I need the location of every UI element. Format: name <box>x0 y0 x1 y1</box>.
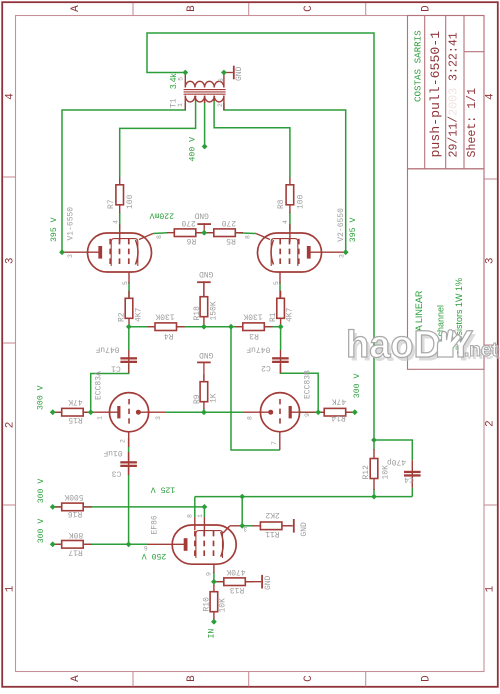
transformer T1 secondary winding <box>185 96 224 111</box>
svg-text:4: 4 <box>485 93 497 100</box>
junction R9 cathode rail <box>201 409 207 415</box>
junction EF86 pin3 node <box>239 523 245 529</box>
svg-text:6: 6 <box>218 78 225 82</box>
svg-text:4K7: 4K7 <box>286 307 295 322</box>
svg-text:GND: GND <box>199 350 214 359</box>
svg-text:29/11/2003 3:22:41: 29/11/2003 3:22:41 <box>448 32 461 157</box>
resistor R16 leads <box>54 506 92 508</box>
wire C3 top to triode grid pin2 <box>128 438 130 461</box>
svg-text:Sheet: 1/1: Sheet: 1/1 <box>466 88 479 158</box>
svg-text:GND: GND <box>235 66 244 81</box>
resistor R11 <box>260 522 282 530</box>
resistor R5 leads <box>206 232 243 234</box>
svg-text:470K: 470K <box>226 567 245 576</box>
wire R15 to plate node <box>53 411 92 413</box>
wire triode A plate pin1 lead <box>91 411 118 413</box>
svg-text:4K7: 4K7 <box>135 307 144 322</box>
resistor R14 leads <box>320 411 354 413</box>
title date 29/11 time 3:22:41 <box>448 32 461 157</box>
resistor R15 leads <box>54 411 93 413</box>
ground right of R11 <box>282 519 295 533</box>
svg-text:haoD: haoD <box>346 324 441 366</box>
svg-text:1: 1 <box>485 585 497 592</box>
junction R14 300V end <box>352 409 358 415</box>
wire V2 screen pin4 lead <box>289 224 291 242</box>
wire EF86 pin8 lead <box>194 517 196 530</box>
wire V2 cathode pin8 lead <box>256 234 270 240</box>
svg-text:R15: R15 <box>68 415 83 424</box>
wire C1 bottom route to triode plate node <box>91 364 129 412</box>
resistor R17 <box>62 541 83 549</box>
junction triode A plate node <box>88 409 94 415</box>
svg-text:D: D <box>421 5 433 12</box>
svg-text:.net: .net <box>464 340 498 361</box>
svg-text:8: 8 <box>247 416 254 420</box>
svg-text:470p: 470p <box>387 457 406 466</box>
wire R10 input stub <box>213 619 215 622</box>
wire C4 bottom <box>411 488 413 497</box>
resistor R4 <box>155 323 177 331</box>
wire V1 grid pin5 lead <box>128 272 130 284</box>
junction triode B plate node <box>315 409 321 415</box>
junction splitter mid <box>228 324 234 330</box>
wire T1 right UL tap to R8 <box>214 100 290 178</box>
svg-text:2: 2 <box>485 420 497 427</box>
svg-text:3: 3 <box>67 254 74 258</box>
resistor R7 <box>116 185 124 205</box>
wire C2 bottom route to triode plate node <box>280 364 318 412</box>
svg-text:3: 3 <box>339 254 346 258</box>
svg-text:10K: 10K <box>218 598 227 613</box>
power tube V1 6550 <box>88 233 152 272</box>
wire R16 screen line <box>53 507 205 517</box>
svg-text:R9: R9 <box>193 394 202 404</box>
svg-text:A: A <box>70 675 82 682</box>
capacitor C3 stubs <box>128 452 130 475</box>
svg-text:150K: 150K <box>210 301 219 320</box>
title block column lines <box>425 16 484 169</box>
ground right of R13 <box>245 575 263 589</box>
svg-text:GND: GND <box>264 575 273 590</box>
svg-text:C2: C2 <box>261 363 271 372</box>
svg-text:400 V: 400 V <box>189 137 198 162</box>
svg-text:R17: R17 <box>68 548 83 557</box>
svg-text:2K2: 2K2 <box>265 510 280 519</box>
frame column ticks bottom <box>133 672 366 687</box>
junction R1 bottom <box>278 324 284 330</box>
resistor R6 <box>174 229 196 237</box>
wire grid node to R13 <box>214 581 224 583</box>
wire V1 screen pin4 lead <box>119 224 121 242</box>
junction 400V stub end <box>202 144 208 150</box>
svg-text:8: 8 <box>187 514 194 518</box>
frame column letters bottom <box>70 675 433 682</box>
resistor R2 <box>125 298 133 318</box>
junction R18 bottom <box>201 324 207 330</box>
junction EF86 cathode mid <box>239 494 245 500</box>
wire T1 left UL tap to R7 <box>120 100 196 178</box>
wire T1 pin5 feedback loop to R12/C4 <box>147 33 374 440</box>
svg-text:R6: R6 <box>186 236 196 245</box>
wire R17 plate line to EF86 pin6 <box>53 543 148 545</box>
frame row numbers left <box>5 93 17 593</box>
svg-text:3: 3 <box>155 416 162 420</box>
capacitor C1 stubs <box>128 350 130 373</box>
resistor R14 <box>324 408 346 416</box>
capacitor C4 <box>404 471 421 473</box>
wire phase splitter rail <box>129 326 281 328</box>
junction C3 R17 plate node <box>126 541 132 547</box>
svg-text:5: 5 <box>177 77 184 81</box>
svg-text:C: C <box>303 5 315 12</box>
svg-text:IN: IN <box>208 629 217 639</box>
ground above R18 <box>197 281 211 296</box>
wire R9 bottom stub <box>203 409 205 413</box>
svg-text:R7: R7 <box>107 199 116 209</box>
doc field box <box>408 169 485 369</box>
resistor R18 leads <box>203 282 205 327</box>
wire EF86 pin8 stub <box>194 497 196 517</box>
junction V2 plate <box>343 249 349 255</box>
junction R12 bottom <box>371 494 377 500</box>
svg-text:C: C <box>303 675 315 682</box>
ground at R5 R6 junction <box>197 223 211 233</box>
svg-text:R13: R13 <box>230 585 245 594</box>
wire R1 node to C2 <box>280 327 282 350</box>
svg-text:A: A <box>70 5 82 12</box>
svg-text:125 V: 125 V <box>151 485 176 494</box>
resistor R3 <box>243 323 264 331</box>
wire junction to R12 top <box>373 440 375 450</box>
wire triode B plate pin9 lead <box>291 411 318 413</box>
svg-text:395 V: 395 V <box>349 218 358 243</box>
wire R12 bottom to cathode node <box>373 489 375 497</box>
svg-text:2: 2 <box>217 103 224 107</box>
frame column ticks top <box>133 3 366 15</box>
resistor R1 leads <box>280 291 282 327</box>
wire V1 plate pin3 lead <box>62 251 99 253</box>
svg-text:GND: GND <box>300 522 309 537</box>
title block box <box>408 16 485 169</box>
svg-text:C1: C1 <box>111 364 121 373</box>
frame column letters top <box>70 5 433 12</box>
svg-text:1: 1 <box>97 416 104 420</box>
wire V2 grid1 pin5 to R1 <box>279 282 281 299</box>
wire EF86 plate node to C3 <box>128 467 130 544</box>
svg-text:220mV: 220mV <box>149 211 174 220</box>
wire T1 center tap 400V stub <box>204 101 206 147</box>
svg-text:300 V: 300 V <box>37 385 46 410</box>
resistor R8 lead <box>289 178 291 214</box>
resistor R7 lead <box>119 178 121 214</box>
svg-text:8: 8 <box>156 235 163 239</box>
wire EF86 pin1 lead <box>203 517 205 533</box>
svg-text:2: 2 <box>5 422 17 429</box>
svg-text:ECC83B: ECC83B <box>303 370 312 399</box>
frame row ticks right <box>484 179 497 505</box>
power tube V2 6550 <box>258 233 322 272</box>
junction T1 pin6 <box>221 70 227 76</box>
resistor R9 <box>200 382 208 402</box>
capacitor C2 <box>272 357 289 359</box>
triode U1A ECC83A <box>109 393 148 432</box>
resistor R12 leads <box>373 449 375 490</box>
junction R15 node end <box>50 409 56 415</box>
svg-text:8: 8 <box>245 235 252 239</box>
resistor R6 leads <box>167 232 204 234</box>
resistor R10 <box>210 592 218 612</box>
resistor R11 leads <box>253 525 293 527</box>
svg-text:C4: C4 <box>404 475 414 484</box>
svg-text:100: 100 <box>296 194 305 209</box>
wire T1 pin2 to V2 plate <box>224 103 346 252</box>
wire triode B cathode pin8 lead <box>243 411 269 413</box>
svg-text:4: 4 <box>112 220 119 224</box>
svg-text:R1: R1 <box>269 312 278 322</box>
svg-text:500K: 500K <box>64 492 83 501</box>
capacitor C2 stubs <box>280 350 282 373</box>
wire junction to C4 top <box>374 440 412 460</box>
wire triode A grid pin2 lead <box>128 432 130 447</box>
svg-text:3: 3 <box>485 257 497 264</box>
svg-text:ECC83A: ECC83A <box>95 371 104 400</box>
junction V1 plate <box>59 249 65 255</box>
svg-text:4: 4 <box>5 93 17 100</box>
watermark haoDIY.net <box>346 324 500 370</box>
junction T1 pin5 <box>182 70 188 76</box>
resistor R13 <box>224 578 246 586</box>
ground at T1 pin6 <box>224 66 235 80</box>
svg-text:300 V: 300 V <box>37 479 46 504</box>
resistor R4 leads <box>148 326 185 328</box>
resistor R15 <box>62 408 83 416</box>
wire EF86 pin3 lead <box>230 525 242 527</box>
wire EF86 grid node <box>213 572 215 582</box>
wire triode cathode rail <box>166 411 243 413</box>
svg-text:1K: 1K <box>210 393 219 403</box>
svg-text:R18: R18 <box>193 306 202 321</box>
wire triode pin7 stub <box>279 432 281 450</box>
wire triode A cathode pin3 lead <box>141 411 167 413</box>
junction R16 EF86 pin1 <box>202 504 208 510</box>
svg-text:GND: GND <box>199 269 214 278</box>
transformer T1 primary winding <box>185 73 224 88</box>
wire EF86 cathode rail <box>195 496 412 498</box>
svg-text:R5: R5 <box>226 236 236 245</box>
svg-text:5: 5 <box>122 281 129 285</box>
svg-text:EF86: EF86 <box>150 515 159 534</box>
svg-text:47K: 47K <box>332 397 347 406</box>
svg-text:047uF: 047uF <box>246 344 270 353</box>
svg-text:2: 2 <box>120 439 127 443</box>
ground above R9 <box>197 362 211 382</box>
svg-text:100: 100 <box>126 194 135 209</box>
junction R5 R6 <box>201 230 207 236</box>
junction IN end <box>211 619 217 625</box>
svg-text:R11: R11 <box>265 529 280 538</box>
svg-text:V2-6550: V2-6550 <box>337 208 346 242</box>
svg-text:R3: R3 <box>249 331 259 340</box>
svg-text:R14: R14 <box>331 413 346 422</box>
svg-text:300 V: 300 V <box>37 519 46 544</box>
svg-text:V1-6550: V1-6550 <box>66 207 75 241</box>
svg-text:6: 6 <box>144 544 148 551</box>
svg-text:5: 5 <box>273 281 280 285</box>
resistor R10 leads <box>213 584 215 619</box>
junction R17 300V end <box>50 541 56 547</box>
svg-text:130K: 130K <box>155 311 174 320</box>
svg-text:270: 270 <box>222 218 237 227</box>
wire V1 cathode to R6 <box>153 232 168 235</box>
svg-text:R10: R10 <box>202 597 211 612</box>
resistor R8 <box>286 185 294 205</box>
svg-text:D: D <box>421 675 433 682</box>
wire V1 grid1 pin5 to R2 <box>128 282 130 299</box>
junction feedback corner <box>371 437 377 443</box>
wire node down to EF86 pin3 line <box>241 497 243 526</box>
svg-text:R12: R12 <box>362 465 371 480</box>
svg-text:395 V: 395 V <box>50 217 59 242</box>
wire plate node to R14 and 300V <box>299 411 355 413</box>
capacitor C3 <box>120 461 137 463</box>
svg-text:7: 7 <box>271 441 278 445</box>
wire V1 cathode pin8 lead <box>139 234 153 240</box>
wire R6 R5 junction segment <box>196 232 214 234</box>
wire R5 to V2 cathode <box>235 232 256 235</box>
capacitor C1 <box>120 357 137 359</box>
svg-text:GND: GND <box>194 211 209 220</box>
resistor R5 <box>214 229 236 237</box>
svg-text:R8: R8 <box>277 199 286 209</box>
svg-text:1: 1 <box>5 585 17 592</box>
svg-text:1: 1 <box>197 514 204 518</box>
svg-text:80K: 80K <box>69 530 84 539</box>
junction EF86 grid node <box>211 579 217 585</box>
wire left UL tap to V1 screen pin4 <box>119 212 121 230</box>
wire EF86 grid pin9 lead <box>213 564 215 573</box>
svg-text:4: 4 <box>282 220 289 224</box>
junction R2 bottom <box>126 324 132 330</box>
frame row numbers right <box>485 93 497 593</box>
svg-text:B: B <box>186 675 198 682</box>
capacitor C4 stubs <box>411 460 413 487</box>
resistor R12 <box>370 459 378 479</box>
svg-text:push-pull-6550-1: push-pull-6550-1 <box>428 31 443 158</box>
svg-text:047uF: 047uF <box>95 344 119 353</box>
svg-text:3: 3 <box>5 257 17 264</box>
resistor R18 <box>200 297 208 317</box>
wire R2 node to C1 <box>128 327 130 350</box>
svg-text:B: B <box>186 5 198 12</box>
wire V2 grid pin5 lead <box>279 272 281 284</box>
EF86 cathode exit to pin3 <box>223 526 230 533</box>
wire splitter node down to triode grid pin7 <box>231 327 280 450</box>
wire EF86 pin3 to R11 <box>242 525 253 527</box>
wire EF86 plate pin6 lead <box>148 543 185 545</box>
svg-text:47K: 47K <box>68 397 83 406</box>
svg-text:COSTAS SARRIS: COSTAS SARRIS <box>413 30 424 102</box>
wire V2 plate pin3 lead <box>310 251 346 253</box>
svg-text:250 V: 250 V <box>142 551 167 560</box>
resistor R16 <box>62 503 83 511</box>
svg-text:R16: R16 <box>68 509 83 518</box>
svg-text:300 V: 300 V <box>353 374 362 399</box>
svg-text:9: 9 <box>304 413 311 417</box>
svg-text:1: 1 <box>177 103 184 107</box>
svg-text:01uF: 01uF <box>103 448 122 457</box>
resistor R17 leads <box>54 543 92 545</box>
resistor R1 <box>277 298 285 318</box>
junction R16 300V end <box>50 504 56 510</box>
pentode V3 EF86 <box>172 525 236 564</box>
resistor R2 leads <box>128 291 130 327</box>
resistor R9 leads <box>203 374 205 409</box>
svg-text:R2: R2 <box>118 312 127 322</box>
wire T1 pin1 to V1 plate <box>62 103 185 252</box>
resistor R13 leads <box>216 581 253 583</box>
svg-text:R4: R4 <box>164 331 174 340</box>
triode U1B ECC83B <box>260 393 299 432</box>
svg-text:9: 9 <box>206 572 213 576</box>
resistor R3 leads <box>236 326 273 328</box>
svg-text:130K: 130K <box>243 311 262 320</box>
svg-text:C3: C3 <box>112 468 122 477</box>
frame row ticks left <box>3 177 15 505</box>
wire right UL tap to V2 screen pin4 <box>289 212 291 230</box>
transformer T1 core <box>184 90 226 95</box>
svg-text:270: 270 <box>181 218 196 227</box>
